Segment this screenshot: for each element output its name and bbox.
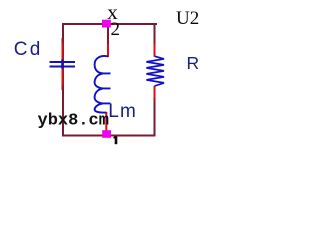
svg-text:Cd: Cd <box>14 39 41 60</box>
node 2 junction square (top) <box>102 20 111 28</box>
wire right side lower <box>154 102 156 137</box>
inductor Lm body (coil) <box>95 56 111 113</box>
pin L1 top (red) <box>107 40 109 57</box>
wire right side upper <box>154 23 156 41</box>
capacitor Cd body <box>50 60 76 69</box>
svg-text:U2: U2 <box>176 8 199 29</box>
wire bottom net (node 1) <box>62 135 156 137</box>
wire middle branch top (node to pin) <box>107 25 109 41</box>
svg-text:Lm: Lm <box>108 101 136 122</box>
pin R1 bottom (red) <box>154 86 156 103</box>
label pin 1 <box>114 136 116 144</box>
svg-text:ybx8.cm: ybx8.cm <box>38 112 109 131</box>
resistor R body (zigzag) <box>146 56 164 86</box>
svg-text:2: 2 <box>111 19 121 40</box>
wire left side <box>62 23 64 137</box>
node 1 junction square (bottom) <box>102 130 111 138</box>
wire top net (node x / 2) <box>62 23 157 25</box>
pin C1 bottom (red) <box>62 68 64 89</box>
pin C1 top (red) <box>62 39 64 61</box>
pin L1 bottom (red) <box>105 112 107 132</box>
pin R1 top (red) <box>154 40 156 57</box>
svg-text:R: R <box>187 53 200 73</box>
